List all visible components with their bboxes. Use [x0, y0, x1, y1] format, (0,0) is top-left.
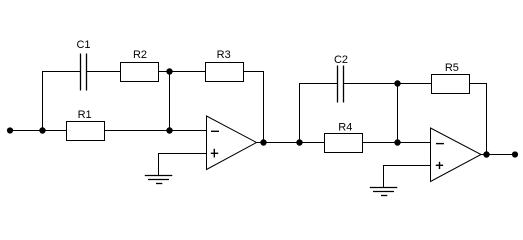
svg-text:R1: R1 — [78, 109, 92, 121]
node junction stage2 input — [296, 139, 302, 145]
wire up from input node to C1 — [43, 72, 81, 131]
U2 minus sign — [436, 143, 444, 145]
wire input to R1 — [10, 130, 67, 132]
svg-text:R4: R4 — [338, 122, 352, 134]
node junction at U2 inverting rail — [394, 139, 400, 145]
wire R5 to U2 output — [470, 84, 487, 155]
wire C1 to R2 — [87, 71, 121, 73]
wire R2 to R3 — [159, 71, 206, 73]
U1 minus sign — [211, 130, 219, 132]
op-amp U2 — [431, 128, 482, 182]
resistor R5 — [432, 75, 470, 94]
resistor R2 — [121, 63, 159, 82]
capacitor C1 — [81, 54, 87, 91]
capacitor C2 — [338, 66, 344, 103]
op-amp U1 — [207, 116, 257, 170]
svg-text:C2: C2 — [334, 54, 348, 66]
resistor R3 — [206, 63, 244, 82]
U2 plus sign — [436, 162, 443, 169]
wire R3 to U1 output — [243, 72, 264, 143]
node junction U1 output — [260, 139, 266, 145]
wire junction down to inverting rail of U2 — [397, 84, 399, 143]
node junction R2/R3/feedback — [166, 68, 172, 74]
node junction U2 output — [483, 151, 489, 157]
resistor R4 — [325, 134, 363, 153]
resistor R1 — [67, 122, 105, 141]
ground GND2 — [370, 188, 398, 196]
input terminal — [7, 127, 13, 133]
output terminal — [512, 151, 518, 157]
wire junction down to inverting rail — [169, 72, 171, 131]
wire R4 to op-amp U2 inverting input — [363, 142, 431, 144]
wire U1 output rail to R4 — [257, 142, 325, 144]
svg-text:C1: C1 — [76, 39, 90, 51]
U1 plus sign — [211, 149, 218, 158]
svg-text:R5: R5 — [445, 62, 459, 74]
wire U2 output to output terminal — [481, 154, 515, 156]
wire U2 non-inverting input to ground — [384, 166, 431, 188]
node junction at input branch — [39, 127, 45, 133]
wire R1 to op-amp U1 inverting input — [105, 130, 207, 132]
ground GND1 — [145, 176, 173, 184]
wire U1 non-inverting input to ground — [159, 154, 207, 176]
node junction at inverting rail — [166, 127, 172, 133]
svg-text:R3: R3 — [217, 49, 231, 61]
svg-text:R2: R2 — [133, 49, 147, 61]
node junction C2/R5/feedback — [394, 80, 400, 86]
wire up from stage2 node to C2 — [300, 84, 338, 143]
wire C2 to R5 — [344, 83, 432, 85]
